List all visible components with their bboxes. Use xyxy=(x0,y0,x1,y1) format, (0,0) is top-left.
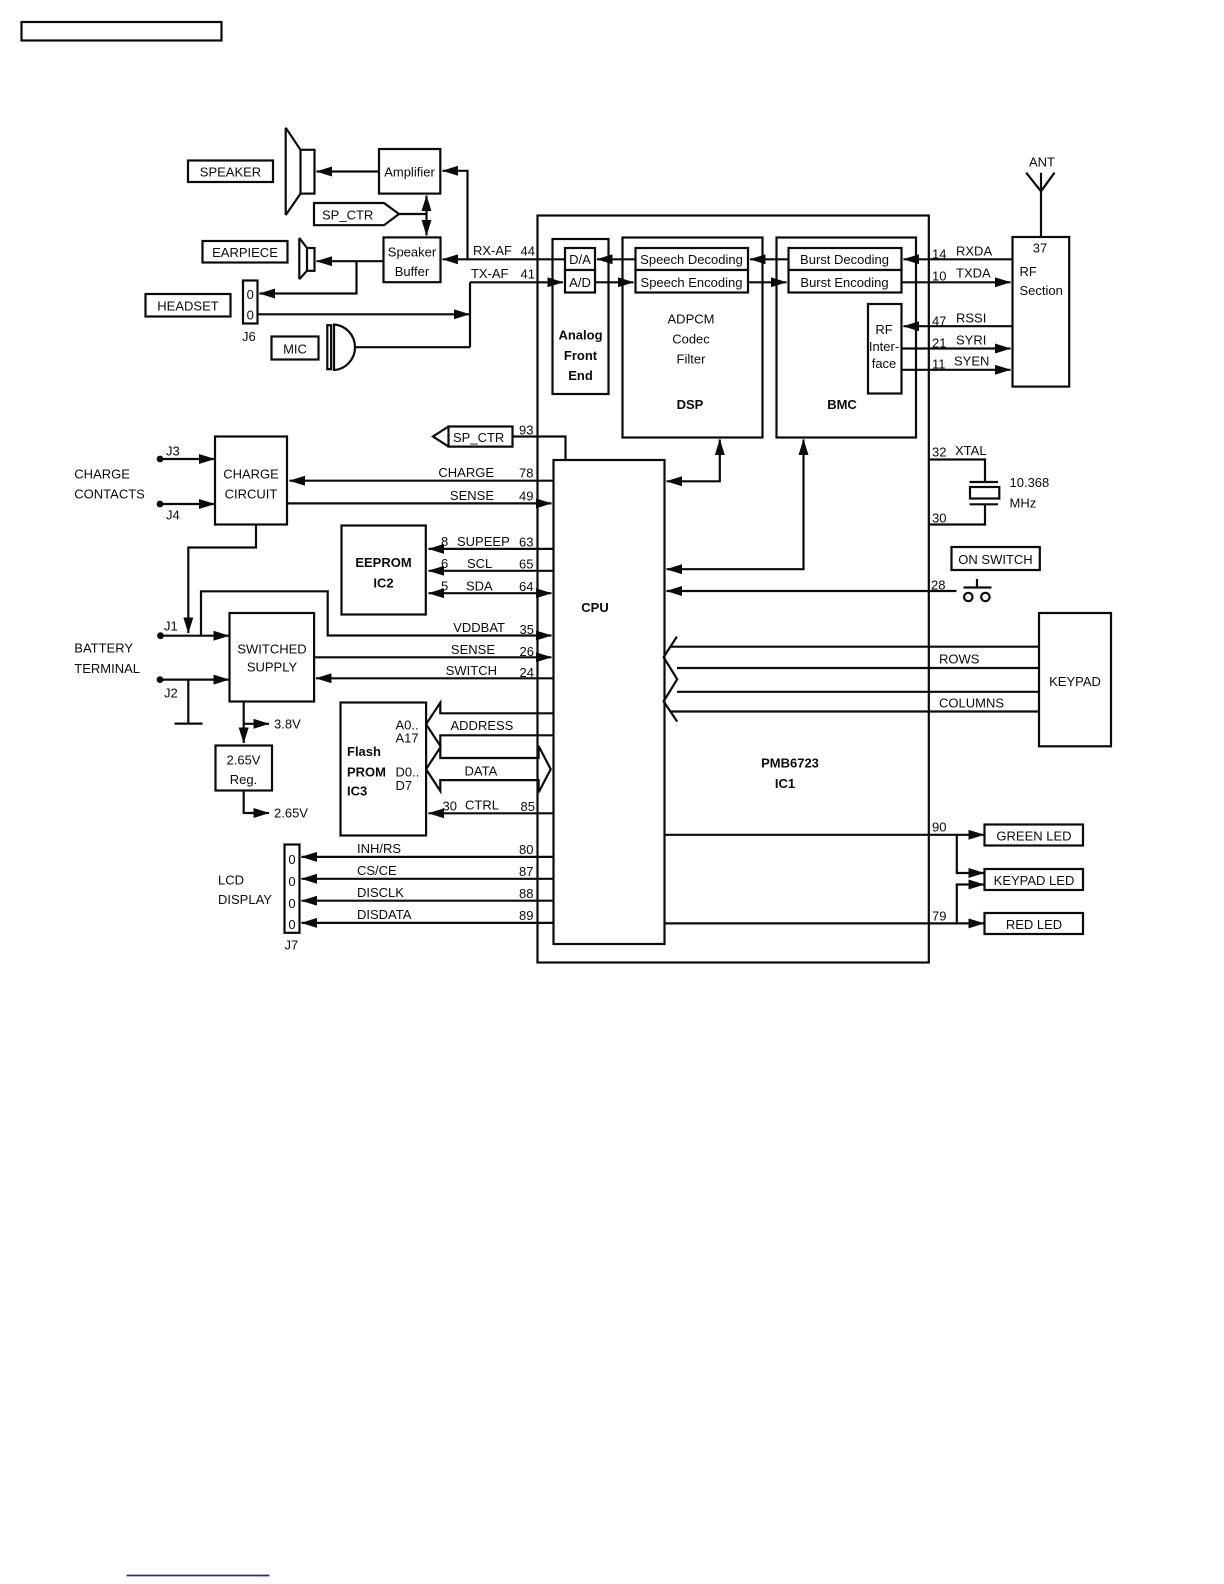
label CS/CE 87 xyxy=(357,863,534,879)
bus DATA (fat arrow, bidirectional) xyxy=(426,746,551,792)
svg-text:EARPIECE: EARPIECE xyxy=(212,245,278,260)
svg-text:32: 32 xyxy=(932,445,946,460)
speaker buffer U xyxy=(384,237,441,282)
D/A converter xyxy=(565,248,595,270)
svg-text:DSP: DSP xyxy=(677,397,704,412)
wire keypad bus line 2 xyxy=(677,667,1039,669)
wire regulator 2.65V output xyxy=(244,791,269,814)
KEYPAD LED box xyxy=(985,869,1084,890)
svg-text:10.368: 10.368 xyxy=(1010,475,1050,490)
svg-text:SWITCH: SWITCH xyxy=(446,663,497,678)
label CHARGE CONTACTS xyxy=(74,467,145,502)
speech encoding block xyxy=(636,270,749,293)
svg-text:ADPCM: ADPCM xyxy=(668,312,715,327)
wire amplifier to speaker xyxy=(317,170,380,172)
svg-text:RED LED: RED LED xyxy=(1006,917,1062,932)
wire TX vertical node xyxy=(469,282,471,347)
svg-text:CHARGE: CHARGE xyxy=(223,467,279,482)
svg-text:DISPLAY: DISPLAY xyxy=(218,892,272,907)
label CHARGE 78 xyxy=(438,465,533,481)
svg-text:J4: J4 xyxy=(166,508,180,523)
wire RX branch to amplifier input xyxy=(443,171,468,259)
svg-text:SCL: SCL xyxy=(467,556,492,571)
svg-text:TX-AF: TX-AF xyxy=(471,266,509,281)
wire buffer to earpiece xyxy=(317,260,384,262)
label SENSE 26 xyxy=(451,642,534,659)
svg-text:ANT: ANT xyxy=(1029,155,1055,170)
svg-text:Front: Front xyxy=(564,348,598,363)
svg-text:47: 47 xyxy=(932,314,946,329)
svg-text:EEPROM: EEPROM xyxy=(355,555,411,570)
wire CPU to DSP (bidirectional) xyxy=(667,440,720,482)
svg-text:CHARGE: CHARGE xyxy=(438,465,494,480)
wire headset to TX node xyxy=(258,313,470,315)
label LCD DISPLAY xyxy=(218,873,272,908)
svg-text:RXDA: RXDA xyxy=(956,244,992,259)
label 6 SCL 65 xyxy=(441,556,534,572)
svg-text:ROWS: ROWS xyxy=(939,652,980,667)
label 5 SDA 64 xyxy=(441,579,534,595)
svg-text:D/A: D/A xyxy=(569,252,591,267)
wire XTAL pin 30 xyxy=(929,504,985,524)
svg-text:PROM: PROM xyxy=(347,765,386,780)
ground xyxy=(175,680,203,724)
svg-text:26: 26 xyxy=(520,644,534,659)
SP_CTR tag (top) xyxy=(314,203,399,225)
wire speech encoding to burst encoding xyxy=(748,281,787,283)
wire A/D to speech encoding xyxy=(595,281,634,283)
svg-text:SUPPLY: SUPPLY xyxy=(247,660,298,675)
wire SUPEEP pin 63 xyxy=(429,548,554,550)
svg-text:Filter: Filter xyxy=(677,352,707,367)
DSP block xyxy=(623,238,763,438)
RED LED box xyxy=(985,913,1084,934)
wire SCL pin 65 xyxy=(429,570,554,572)
svg-text:30: 30 xyxy=(932,511,946,526)
svg-text:IC2: IC2 xyxy=(373,576,393,591)
node J3 xyxy=(157,444,180,463)
svg-text:2.65V: 2.65V xyxy=(274,806,308,821)
label DISCLK 88 xyxy=(357,885,534,901)
label 21 SYRI xyxy=(932,333,986,351)
svg-text:TXDA: TXDA xyxy=(956,266,991,281)
footer blue rule xyxy=(127,1575,270,1577)
label 32 XTAL xyxy=(932,443,987,460)
A/D converter xyxy=(565,270,595,293)
svg-text:93: 93 xyxy=(519,423,533,438)
wire mic to TX node xyxy=(356,346,470,348)
node J1 xyxy=(157,619,178,640)
svg-text:5: 5 xyxy=(441,579,448,594)
wire RX-AF xyxy=(443,258,566,260)
svg-text:0: 0 xyxy=(247,308,254,323)
CPU block xyxy=(554,460,665,944)
svg-text:RX-AF: RX-AF xyxy=(473,243,512,258)
svg-text:0: 0 xyxy=(288,852,295,867)
svg-text:21: 21 xyxy=(932,336,946,351)
amplifier U (Amplifier) xyxy=(379,149,440,194)
wire keypad bus line 4 xyxy=(671,710,1040,712)
wire branch to keypad LED (upper) xyxy=(957,835,984,873)
wire speech decoding to D/A xyxy=(597,258,636,260)
svg-text:VDDBAT: VDDBAT xyxy=(453,620,505,635)
wire keypad bus line 3 xyxy=(677,691,1039,693)
wire SENSE pin 26 xyxy=(314,656,552,658)
svg-text:SP_CTR: SP_CTR xyxy=(453,430,504,445)
svg-text:Codec: Codec xyxy=(672,332,710,347)
svg-text:IC3: IC3 xyxy=(347,784,367,799)
svg-text:CONTACTS: CONTACTS xyxy=(74,487,145,502)
speaker icon xyxy=(286,128,315,215)
label DISDATA 89 xyxy=(357,907,534,923)
RF interface block xyxy=(868,304,902,394)
wire TXDA xyxy=(902,281,1011,283)
svg-text:2.65V: 2.65V xyxy=(227,753,261,768)
svg-text:3.8V: 3.8V xyxy=(274,717,301,732)
wire CS/CE pin 87 xyxy=(302,878,554,880)
keypad block xyxy=(1039,613,1111,746)
svg-text:LCD: LCD xyxy=(218,873,244,888)
svg-text:SDA: SDA xyxy=(466,579,493,594)
burst decoding block xyxy=(789,248,902,270)
label PMB6723 IC1 xyxy=(761,756,819,792)
svg-text:6: 6 xyxy=(441,556,448,571)
HEADSET label box xyxy=(146,294,231,317)
svg-text:85: 85 xyxy=(521,799,535,814)
wire charge circuit to battery node xyxy=(188,525,256,634)
svg-text:IC1: IC1 xyxy=(775,776,795,791)
svg-text:SYEN: SYEN xyxy=(954,354,989,369)
mic icon xyxy=(327,325,355,371)
label 11 SYEN xyxy=(932,354,989,372)
svg-text:Speech Encoding: Speech Encoding xyxy=(641,275,743,290)
svg-text:SYRI: SYRI xyxy=(956,333,986,348)
svg-text:J1: J1 xyxy=(164,619,178,634)
svg-text:MHz: MHz xyxy=(1010,496,1037,511)
svg-text:SENSE: SENSE xyxy=(450,488,494,503)
wire J1 to switched supply xyxy=(161,635,230,637)
wire DISDATA pin 89 xyxy=(302,922,554,924)
svg-text:CPU: CPU xyxy=(581,600,608,615)
node J4 xyxy=(157,501,180,523)
svg-text:37: 37 xyxy=(1033,241,1047,256)
svg-text:10: 10 xyxy=(932,269,946,284)
label 14 RXDA xyxy=(932,244,992,262)
label 30 CTRL 85 xyxy=(443,798,536,815)
wire J2 to switched supply xyxy=(160,678,229,680)
svg-text:ON SWITCH: ON SWITCH xyxy=(958,552,1032,567)
svg-text:80: 80 xyxy=(519,842,533,857)
GREEN LED box xyxy=(985,825,1084,846)
svg-text:MIC: MIC xyxy=(283,342,307,357)
label 10.368 MHz xyxy=(1010,475,1050,511)
svg-text:0: 0 xyxy=(247,287,254,302)
crystal Y1 10.368 MHz xyxy=(970,482,1000,504)
label INH/RS 80 xyxy=(357,841,534,857)
ON SWITCH label box xyxy=(952,547,1040,570)
svg-text:COLUMNS: COLUMNS xyxy=(939,696,1004,711)
svg-text:87: 87 xyxy=(519,864,533,879)
keypad bus arrowheads (zigzag chevrons) xyxy=(664,637,678,722)
antenna ANT xyxy=(1026,155,1055,238)
svg-text:89: 89 xyxy=(519,908,533,923)
svg-text:65: 65 xyxy=(519,557,533,572)
burst encoding block xyxy=(789,270,902,293)
wire J4 to charge circuit xyxy=(160,503,215,505)
svg-text:44: 44 xyxy=(521,244,535,259)
wire VDDBAT pin 35 (battery feed) xyxy=(201,591,552,635)
wire supply 3.8V output xyxy=(244,702,269,744)
wire earpiece branch to headset jack xyxy=(260,261,357,293)
wire RSSI xyxy=(904,325,1013,327)
svg-text:Amplifier: Amplifier xyxy=(384,165,435,180)
svg-text:End: End xyxy=(568,368,593,383)
svg-text:face: face xyxy=(872,356,897,371)
svg-text:HEADSET: HEADSET xyxy=(157,299,218,314)
svg-text:Analog: Analog xyxy=(558,328,602,343)
wire branch to keypad LED (lower) xyxy=(957,885,984,924)
label 47 RSSI xyxy=(932,311,986,329)
svg-text:64: 64 xyxy=(519,579,533,594)
SPEAKER label box xyxy=(188,161,273,183)
node J2 xyxy=(157,676,178,700)
earpiece icon xyxy=(299,238,314,279)
svg-text:Reg.: Reg. xyxy=(230,772,257,787)
svg-text:XTAL: XTAL xyxy=(955,443,987,458)
svg-text:SWITCHED: SWITCHED xyxy=(237,642,306,657)
label TX-AF 41 xyxy=(471,266,535,282)
IC U1 PMB6723 outline xyxy=(538,216,929,963)
svg-text:49: 49 xyxy=(519,489,533,504)
wire SYEN xyxy=(902,369,1011,371)
svg-text:CTRL: CTRL xyxy=(465,798,499,813)
svg-text:Flash: Flash xyxy=(347,744,381,759)
wire SDA pin 64 (bidirectional) xyxy=(429,592,552,594)
wire TX-AF xyxy=(470,281,563,283)
svg-text:A17: A17 xyxy=(396,731,419,746)
svg-text:J6: J6 xyxy=(242,329,256,344)
svg-text:Burst Encoding: Burst Encoding xyxy=(800,275,888,290)
svg-text:0: 0 xyxy=(288,896,295,911)
svg-text:CS/CE: CS/CE xyxy=(357,863,397,878)
flash PROM IC3 block xyxy=(341,703,427,836)
svg-text:41: 41 xyxy=(521,267,535,282)
switched supply block xyxy=(230,613,315,702)
label 10 TXDA xyxy=(932,266,991,284)
svg-text:BMC: BMC xyxy=(827,397,857,412)
wire SP_CTR to control line xyxy=(399,213,427,215)
label BATTERY TERMINAL xyxy=(74,641,140,677)
svg-text:DATA: DATA xyxy=(465,764,498,779)
regulator 2.65V block xyxy=(216,746,273,791)
SP_CTR tag (pin 93) xyxy=(433,427,513,447)
svg-text:PMB6723: PMB6723 xyxy=(761,756,819,771)
svg-text:CIRCUIT: CIRCUIT xyxy=(225,487,278,502)
BMC block xyxy=(777,238,917,438)
label VDDBAT 35 xyxy=(453,620,534,637)
svg-text:GREEN LED: GREEN LED xyxy=(996,829,1071,844)
wire CTRL pins 30/85 xyxy=(429,812,553,814)
wire keypad bus line 1 xyxy=(671,646,1040,648)
svg-text:8: 8 xyxy=(441,534,448,549)
svg-text:D7: D7 xyxy=(396,778,413,793)
svg-text:RF: RF xyxy=(875,322,892,337)
svg-text:KEYPAD: KEYPAD xyxy=(1049,674,1101,689)
svg-text:0: 0 xyxy=(288,917,295,932)
charge circuit block xyxy=(215,437,287,525)
svg-text:CHARGE: CHARGE xyxy=(74,467,130,482)
svg-text:88: 88 xyxy=(519,886,533,901)
svg-text:DISCLK: DISCLK xyxy=(357,885,404,900)
svg-text:Inter-: Inter- xyxy=(869,339,899,354)
svg-text:Buffer: Buffer xyxy=(395,264,430,279)
svg-text:78: 78 xyxy=(519,466,533,481)
wire J3 to charge circuit xyxy=(160,458,215,460)
svg-text:24: 24 xyxy=(520,665,534,680)
svg-text:11: 11 xyxy=(932,357,946,372)
svg-text:SP_CTR: SP_CTR xyxy=(322,208,373,223)
svg-text:14: 14 xyxy=(932,247,946,262)
wire DISCLK pin 88 xyxy=(302,900,554,902)
svg-text:ADDRESS: ADDRESS xyxy=(451,718,514,733)
svg-text:28: 28 xyxy=(931,578,945,593)
label 8 SUPEEP 63 xyxy=(441,534,534,550)
wire CPU to red LED (pin 79) xyxy=(665,922,985,924)
svg-text:KEYPAD LED: KEYPAD LED xyxy=(994,873,1075,888)
svg-text:Speaker: Speaker xyxy=(388,245,437,260)
wire RXDA xyxy=(904,258,1013,260)
wire CPU to BMC (bidirectional) xyxy=(667,440,804,570)
svg-text:79: 79 xyxy=(932,909,946,924)
wire XTAL pin 32 xyxy=(929,460,985,483)
svg-text:90: 90 xyxy=(932,820,946,835)
RF section block xyxy=(1013,237,1070,387)
svg-text:Section: Section xyxy=(1020,283,1063,298)
svg-text:J7: J7 xyxy=(285,938,299,953)
svg-text:35: 35 xyxy=(520,622,534,637)
svg-text:RSSI: RSSI xyxy=(956,311,986,326)
speech decoding block xyxy=(636,248,749,270)
svg-text:RF: RF xyxy=(1020,264,1037,279)
wire INH/RS pin 80 xyxy=(302,856,554,858)
svg-text:DISDATA: DISDATA xyxy=(357,907,412,922)
svg-text:SENSE: SENSE xyxy=(451,642,495,657)
wire SP_CTR to CPU pin 93 xyxy=(513,437,566,461)
MIC label box xyxy=(272,337,319,360)
svg-text:0: 0 xyxy=(288,874,295,889)
label SWITCH 24 xyxy=(446,663,534,680)
wire SENSE pin 49 xyxy=(287,502,552,504)
label SENSE 49 xyxy=(450,488,534,504)
svg-text:BATTERY: BATTERY xyxy=(74,641,133,656)
wire CPU to green LED (pin 90) xyxy=(665,834,985,836)
svg-text:Speech Decoding: Speech Decoding xyxy=(640,252,743,267)
analog front end block xyxy=(553,239,609,394)
connector J7 xyxy=(285,845,300,953)
wire amplifier/buffer control (double arrow) xyxy=(425,196,427,236)
svg-text:SUPEEP: SUPEEP xyxy=(457,534,510,549)
title box (empty) xyxy=(22,22,222,41)
wire CHARGE pin 78 xyxy=(290,480,554,482)
connector J6 xyxy=(242,281,258,345)
svg-text:INH/RS: INH/RS xyxy=(357,841,401,856)
svg-text:TERMINAL: TERMINAL xyxy=(74,661,140,676)
wire SWITCH pin 24 xyxy=(316,677,554,679)
wire burst decoding to speech decoding xyxy=(750,258,789,260)
switch S1 contacts xyxy=(964,579,992,601)
EARPIECE label box xyxy=(203,241,288,263)
svg-text:63: 63 xyxy=(519,535,533,550)
wire on-switch to CPU pin 28 xyxy=(667,590,957,592)
svg-text:SPEAKER: SPEAKER xyxy=(200,165,261,180)
bus ADDRESS (fat arrow) xyxy=(426,703,552,746)
svg-text:Burst Decoding: Burst Decoding xyxy=(800,252,889,267)
svg-text:A/D: A/D xyxy=(569,275,591,290)
svg-text:30: 30 xyxy=(443,799,457,814)
svg-text:J3: J3 xyxy=(166,444,180,459)
svg-text:J2: J2 xyxy=(164,686,178,701)
wire SYRI xyxy=(902,347,1011,349)
label RX-AF 44 xyxy=(473,243,535,259)
EEPROM IC2 block xyxy=(342,526,426,615)
